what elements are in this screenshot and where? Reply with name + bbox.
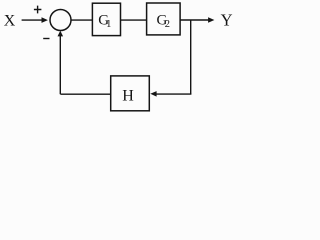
summing junction circle [50, 10, 71, 31]
svg-text:Y: Y [221, 11, 233, 30]
block G2 [147, 3, 181, 35]
block G1 [92, 3, 120, 35]
wire: H output to left [60, 93, 110, 95]
svg-text:1: 1 [106, 19, 111, 30]
svg-text:2: 2 [165, 19, 170, 30]
wire: G2 output arrow to Y [180, 17, 214, 23]
plus sign at summing junction [34, 6, 42, 14]
wire: feedback vertical up into summer with arrowhead [58, 31, 64, 95]
svg-text:X: X [4, 13, 16, 30]
svg-text:H: H [122, 87, 134, 104]
minus sign (feedback input sign) [43, 38, 49, 40]
wire: G1 to G2 [121, 19, 147, 21]
wire: feedback horizontal into H with arrowhead [150, 91, 191, 97]
wire: summer output to G1 [71, 19, 92, 21]
block H [111, 76, 150, 111]
node: takeoff junction / wire: feedback vertical drop [190, 20, 192, 94]
wire: X input arrow into summer [22, 17, 48, 23]
